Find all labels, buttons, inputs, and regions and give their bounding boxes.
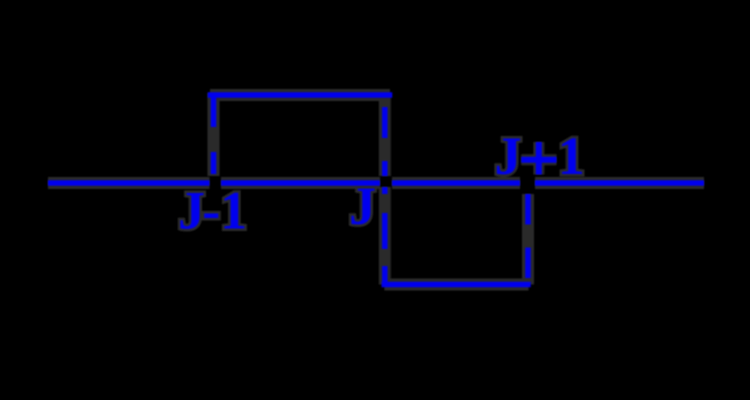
gray antialias halo copy [48,93,704,285]
top interval bracket: horizontal span J-1..J [211,92,390,98]
main axis: segment right of J+1 tick [535,180,704,186]
main axis: segment left of J-1 tick [48,180,210,186]
dashed vertical at node J (top bracket and bottom bracket) [382,107,388,285]
svg-text:J-1: J-1 [178,180,247,240]
blue diagram [48,93,704,285]
svg-text:J: J [349,176,376,236]
bottom interval bracket: horizontal span J..J+1 [384,282,528,288]
bottom bracket right dashed vertical at node J+1 [525,194,531,278]
plus sign of label J+1 [521,142,556,175]
top bracket left dashed vertical at node J-1 [211,93,217,174]
main axis: segment between J-1 and J ticks [221,180,380,186]
main axis: segment between J and J+1 ticks [392,180,520,186]
